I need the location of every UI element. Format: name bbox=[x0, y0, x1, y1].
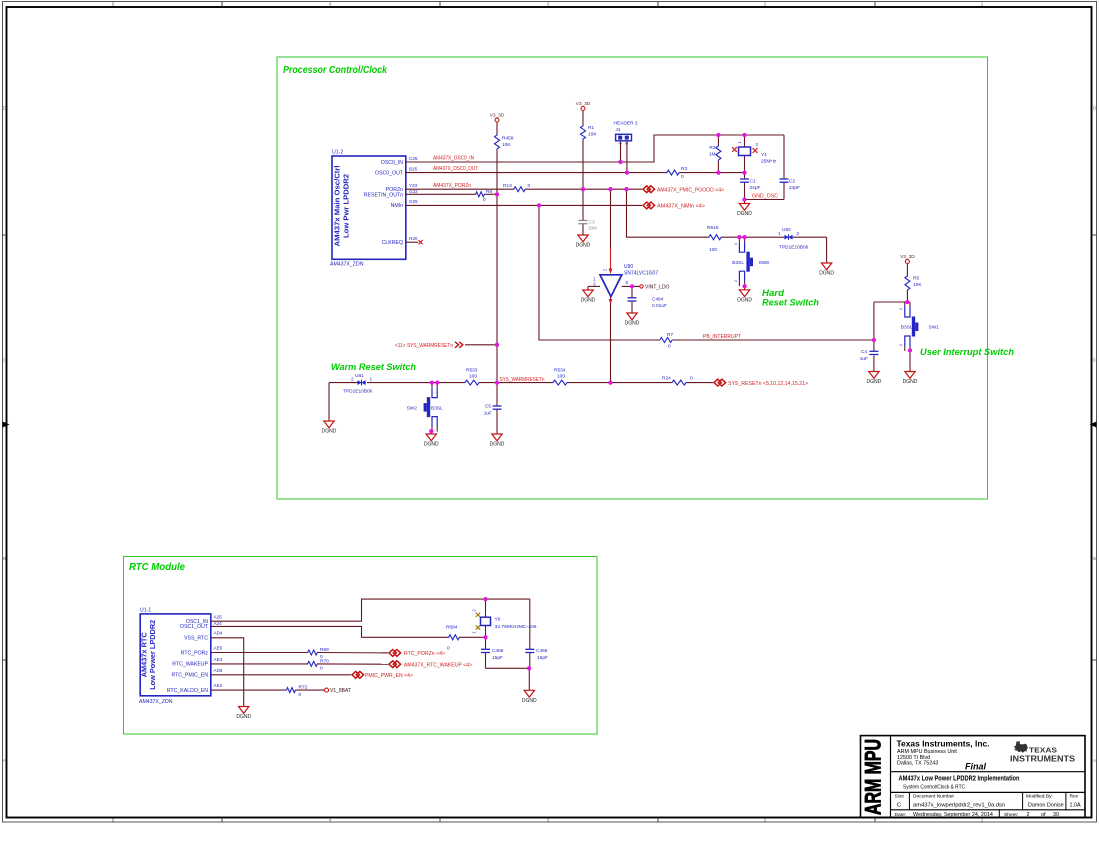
svg-text:1uF: 1uF bbox=[484, 411, 492, 417]
svg-text:Document Number: Document Number bbox=[913, 793, 954, 799]
svg-text:3: 3 bbox=[593, 282, 596, 287]
svg-text:R534: R534 bbox=[554, 368, 566, 374]
svg-text:AM437X_PMIC_PGOOD <4>: AM437X_PMIC_PGOOD <4> bbox=[657, 187, 724, 193]
svg-text:DNI: DNI bbox=[589, 226, 597, 232]
svg-text:AM437X_RTC_WAKEUP <4>: AM437X_RTC_WAKEUP <4> bbox=[404, 662, 472, 668]
svg-text:V3_3D: V3_3D bbox=[576, 101, 591, 107]
svg-text:RTC_KALDO_EN: RTC_KALDO_EN bbox=[167, 688, 208, 694]
svg-text:A25: A25 bbox=[214, 615, 223, 620]
svg-text:C: C bbox=[1093, 358, 1096, 363]
svg-text:C3: C3 bbox=[589, 220, 595, 226]
svg-text:DGND: DGND bbox=[625, 321, 640, 327]
svg-text:R1: R1 bbox=[588, 125, 594, 131]
svg-text:U1-1: U1-1 bbox=[140, 608, 151, 614]
svg-text:30: 30 bbox=[1053, 812, 1059, 818]
svg-text:B: B bbox=[1093, 556, 1096, 561]
svg-text:C466: C466 bbox=[492, 648, 504, 654]
svg-text:DGND: DGND bbox=[236, 714, 251, 720]
svg-text:C465: C465 bbox=[536, 648, 548, 654]
svg-text:4: 4 bbox=[899, 308, 903, 310]
svg-text:VINT_LDO: VINT_LDO bbox=[645, 285, 670, 291]
svg-text:R72: R72 bbox=[299, 685, 308, 691]
svg-text:24pF: 24pF bbox=[789, 185, 800, 191]
svg-text:Texas Instruments, Inc.: Texas Instruments, Inc. bbox=[897, 739, 990, 749]
svg-text:AM437X_NMIn <4>: AM437X_NMIn <4> bbox=[657, 204, 705, 210]
svg-text:2: 2 bbox=[351, 377, 354, 382]
svg-text:<11> SYS_WARMRESETn: <11> SYS_WARMRESETn bbox=[395, 343, 453, 349]
svg-text:2: 2 bbox=[1027, 812, 1030, 818]
svg-text:0: 0 bbox=[681, 174, 684, 180]
svg-text:PB_INTERRUPT: PB_INTERRUPT bbox=[703, 334, 742, 340]
svg-text:R684: R684 bbox=[446, 625, 458, 631]
svg-text:DGND: DGND bbox=[522, 698, 537, 704]
svg-text:PMIC_PWR_EN <4>: PMIC_PWR_EN <4> bbox=[365, 673, 413, 679]
svg-text:2: 2 bbox=[734, 280, 738, 282]
svg-text:SYS_WARMRESETn: SYS_WARMRESETn bbox=[500, 377, 545, 383]
svg-text:R70: R70 bbox=[320, 659, 329, 665]
svg-text:DGND: DGND bbox=[737, 211, 752, 217]
svg-text:AM437X_OSC0_OUT: AM437X_OSC0_OUT bbox=[433, 166, 479, 172]
svg-text:U1-2: U1-2 bbox=[332, 150, 343, 156]
svg-text:J1: J1 bbox=[616, 127, 621, 133]
svg-text:DGND: DGND bbox=[576, 243, 591, 249]
svg-text:G25: G25 bbox=[409, 199, 418, 204]
svg-text:R2: R2 bbox=[709, 145, 715, 151]
svg-text:DGND: DGND bbox=[424, 442, 439, 448]
svg-text:HEADER 2: HEADER 2 bbox=[614, 121, 638, 127]
svg-text:AM437X_OSC0_IN: AM437X_OSC0_IN bbox=[433, 156, 474, 162]
svg-text:CLKREQ: CLKREQ bbox=[382, 240, 403, 246]
svg-text:C2: C2 bbox=[789, 179, 795, 185]
svg-text:U82: U82 bbox=[782, 227, 791, 233]
svg-text:of: of bbox=[1041, 812, 1046, 818]
svg-text:Y1: Y1 bbox=[761, 152, 767, 158]
svg-text:U81: U81 bbox=[355, 373, 364, 379]
svg-text:AD6: AD6 bbox=[214, 668, 223, 673]
svg-text:Low Power LPDDR2: Low Power LPDDR2 bbox=[148, 620, 157, 690]
svg-text:V3_3D: V3_3D bbox=[900, 254, 915, 260]
svg-text:R24: R24 bbox=[662, 376, 671, 382]
svg-text:DGND: DGND bbox=[581, 298, 596, 304]
svg-text:C25: C25 bbox=[409, 156, 418, 161]
svg-text:AD4: AD4 bbox=[214, 631, 223, 636]
svg-text:RTC Module: RTC Module bbox=[129, 562, 185, 573]
svg-text:User Interrupt Switch: User Interrupt Switch bbox=[920, 347, 1014, 358]
svg-text:RTC_PMIC_EN: RTC_PMIC_EN bbox=[171, 673, 208, 679]
svg-text:AE3: AE3 bbox=[214, 657, 223, 662]
svg-text:Rev: Rev bbox=[1070, 793, 1079, 799]
svg-text:OSC1_OUT: OSC1_OUT bbox=[180, 624, 209, 630]
svg-text:SW8: SW8 bbox=[759, 260, 770, 266]
svg-text:OSC0_OUT: OSC0_OUT bbox=[375, 170, 404, 176]
svg-text:SW2: SW2 bbox=[407, 406, 418, 412]
svg-text:R459: R459 bbox=[502, 136, 514, 142]
svg-text:INSTRUMENTS: INSTRUMENTS bbox=[1010, 755, 1076, 764]
svg-text:C1: C1 bbox=[750, 179, 756, 185]
svg-text:1M: 1M bbox=[709, 152, 716, 158]
svg-text:0: 0 bbox=[528, 183, 531, 189]
svg-text:R616: R616 bbox=[707, 225, 719, 231]
svg-text:GND_OSC: GND_OSC bbox=[752, 194, 778, 200]
svg-text:R3: R3 bbox=[681, 166, 687, 172]
svg-text:NMIn: NMIn bbox=[391, 203, 404, 209]
svg-text:V1_8BAT: V1_8BAT bbox=[330, 688, 351, 694]
svg-text:DGND: DGND bbox=[903, 379, 918, 385]
svg-text:TEXAS: TEXAS bbox=[1029, 746, 1057, 755]
svg-text:Y6: Y6 bbox=[495, 616, 501, 622]
svg-text:R8: R8 bbox=[486, 189, 492, 195]
svg-text:0: 0 bbox=[690, 376, 693, 382]
svg-text:100: 100 bbox=[469, 374, 477, 380]
svg-text:15pF: 15pF bbox=[537, 655, 548, 661]
svg-text:4: 4 bbox=[734, 243, 738, 245]
svg-text:0: 0 bbox=[668, 344, 671, 350]
svg-text:B3SL: B3SL bbox=[901, 325, 913, 331]
svg-text:32.768KHzMC-406: 32.768KHzMC-406 bbox=[495, 624, 537, 630]
svg-text:R533: R533 bbox=[466, 368, 478, 374]
svg-text:0: 0 bbox=[447, 646, 450, 652]
svg-text:AM437x Low Power LPDDR2 Implem: AM437x Low Power LPDDR2 Implementation bbox=[899, 774, 1020, 783]
svg-text:10K: 10K bbox=[588, 132, 597, 138]
svg-text:AM437x Main Osc/Ctrl: AM437x Main Osc/Ctrl bbox=[333, 166, 342, 247]
svg-text:Reset Switch: Reset Switch bbox=[762, 298, 819, 309]
svg-text:5: 5 bbox=[626, 280, 629, 285]
svg-text:OSC0_IN: OSC0_IN bbox=[381, 160, 403, 166]
svg-text:10K: 10K bbox=[913, 282, 922, 288]
svg-text:B3SL: B3SL bbox=[732, 260, 744, 266]
svg-text:Warm Reset Switch: Warm Reset Switch bbox=[331, 362, 416, 373]
svg-text:1uF: 1uF bbox=[860, 356, 868, 362]
svg-text:V3_3D: V3_3D bbox=[490, 113, 505, 119]
svg-text:1: 1 bbox=[778, 231, 781, 236]
svg-text:H20: H20 bbox=[409, 236, 418, 241]
svg-text:AM437X_ZDN: AM437X_ZDN bbox=[139, 699, 173, 705]
svg-text:SW1: SW1 bbox=[929, 325, 940, 331]
svg-text:R5: R5 bbox=[913, 276, 919, 282]
svg-text:B25: B25 bbox=[409, 166, 418, 171]
svg-text:A: A bbox=[1093, 758, 1096, 763]
svg-text:Processor Control/Clock: Processor Control/Clock bbox=[283, 65, 387, 76]
svg-text:1: 1 bbox=[370, 377, 373, 382]
svg-text:TPD1E10B06: TPD1E10B06 bbox=[343, 389, 373, 395]
svg-text:RESETIN_OUTn: RESETIN_OUTn bbox=[364, 193, 403, 199]
svg-text:C5: C5 bbox=[485, 404, 491, 410]
svg-text:Modified By:: Modified By: bbox=[1026, 793, 1053, 799]
svg-text:25MHz: 25MHz bbox=[761, 159, 777, 165]
svg-text:TPD1E10B06: TPD1E10B06 bbox=[779, 245, 809, 251]
svg-text:AM437X_ZDN: AM437X_ZDN bbox=[330, 262, 364, 268]
svg-text:R13: R13 bbox=[503, 183, 512, 189]
svg-text:100: 100 bbox=[557, 374, 565, 380]
svg-text:AE2: AE2 bbox=[214, 683, 223, 688]
svg-text:0.01uF: 0.01uF bbox=[652, 303, 667, 309]
svg-text:0: 0 bbox=[483, 197, 486, 203]
svg-text:2: 2 bbox=[899, 344, 903, 346]
svg-text:A: A bbox=[3, 758, 6, 763]
svg-text:DGND: DGND bbox=[819, 271, 834, 277]
svg-text:Damon Donise: Damon Donise bbox=[1028, 803, 1064, 809]
svg-text:RTC_PORz: RTC_PORz bbox=[181, 650, 209, 656]
svg-text:0: 0 bbox=[320, 666, 323, 672]
svg-text:24pF: 24pF bbox=[750, 185, 761, 191]
svg-text:RTC_PORZn <4>: RTC_PORZn <4> bbox=[404, 651, 445, 657]
svg-text:Y23: Y23 bbox=[409, 183, 418, 188]
svg-text:System Control/Clock & RTC: System Control/Clock & RTC bbox=[903, 785, 965, 791]
svg-text:R7: R7 bbox=[667, 332, 673, 338]
svg-text:SN74LVC1G07: SN74LVC1G07 bbox=[624, 271, 658, 277]
svg-text:10K: 10K bbox=[502, 142, 511, 148]
svg-text:C464: C464 bbox=[652, 297, 664, 303]
svg-text:D: D bbox=[3, 106, 6, 111]
svg-text:C: C bbox=[3, 358, 6, 363]
svg-text:0: 0 bbox=[299, 692, 302, 698]
svg-text:B: B bbox=[3, 556, 6, 561]
svg-text:1.0A: 1.0A bbox=[1070, 803, 1081, 809]
svg-text:DGND: DGND bbox=[490, 442, 505, 448]
svg-text:Final: Final bbox=[965, 762, 987, 772]
svg-text:DGND: DGND bbox=[737, 297, 752, 303]
svg-text:AM437X_PORZn: AM437X_PORZn bbox=[433, 183, 471, 189]
svg-text:D: D bbox=[1093, 106, 1096, 111]
svg-text:Dallas, TX 75243: Dallas, TX 75243 bbox=[897, 760, 938, 766]
svg-text:2: 2 bbox=[797, 231, 800, 236]
svg-text:DGND: DGND bbox=[867, 379, 882, 385]
svg-text:am437x_lowperlpddr2_rev1_0a.ds: am437x_lowperlpddr2_rev1_0a.dsn bbox=[913, 803, 1005, 809]
svg-text:U90: U90 bbox=[624, 264, 633, 270]
svg-text:C: C bbox=[897, 802, 901, 808]
svg-text:AE6: AE6 bbox=[214, 646, 223, 651]
svg-text:DGND: DGND bbox=[322, 429, 337, 435]
svg-text:ARM MPU: ARM MPU bbox=[861, 739, 886, 815]
svg-text:SYS_RESETn <5,10,12,14,15,21: SYS_RESETn <5,10,12,14,15,21> bbox=[728, 381, 808, 387]
svg-text:RTC_WAKEUP: RTC_WAKEUP bbox=[172, 662, 208, 668]
svg-text:Wednesday, September 24, 2014: Wednesday, September 24, 2014 bbox=[913, 812, 993, 818]
svg-text:B3SL: B3SL bbox=[431, 406, 443, 412]
svg-text:Date:: Date: bbox=[895, 812, 907, 818]
svg-text:Sheet:: Sheet: bbox=[1004, 812, 1018, 818]
svg-text:VSS_RTC: VSS_RTC bbox=[184, 636, 208, 642]
svg-text:100: 100 bbox=[709, 247, 717, 253]
svg-text:Size: Size bbox=[895, 793, 905, 799]
svg-text:Low Pwr LPDDR2: Low Pwr LPDDR2 bbox=[342, 174, 351, 238]
svg-text:15pF: 15pF bbox=[492, 655, 503, 661]
svg-text:C4: C4 bbox=[861, 349, 867, 355]
svg-text:R69: R69 bbox=[320, 647, 329, 653]
